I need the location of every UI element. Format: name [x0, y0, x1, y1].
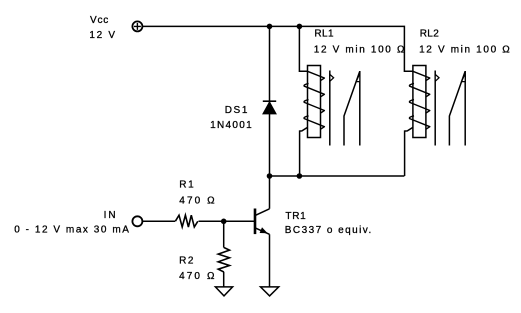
relay RL2 winding turn 3 — [409, 100, 429, 113]
relay RL2 contact fixed right — [464, 71, 466, 146]
svg-text:12 V min 100 Ω: 12 V min 100 Ω — [314, 44, 406, 55]
wire diode branch / collector riser — [269, 26, 271, 208]
ground under R2 — [215, 287, 232, 296]
relay RL1 winding turn 3 — [304, 100, 324, 113]
relay RL1 winding turn 4 — [304, 116, 324, 129]
svg-text:470 Ω: 470 Ω — [179, 195, 216, 206]
relay RL2 contact fixed left — [434, 71, 436, 146]
wire RL1 coil exit — [300, 127, 308, 176]
wire R2 bottom lead — [223, 272, 225, 287]
relay RL1 coil core — [308, 66, 321, 138]
svg-text:12 V: 12 V — [89, 30, 116, 41]
resistor R1 — [175, 215, 198, 227]
relay RL2 winding turn 4 — [409, 116, 429, 129]
relay RL2 coil core — [413, 66, 426, 138]
ground under emitter — [261, 287, 279, 296]
relay RL2 coil and contacts — [409, 66, 465, 146]
node junction top diode — [267, 24, 273, 30]
svg-text:0 - 12 V max 30 mA: 0 - 12 V max 30 mA — [14, 225, 130, 236]
node junction top RL1 — [297, 24, 303, 30]
relay RL1 winding turn 1 — [308, 71, 325, 80]
transistor TR1 — [255, 209, 270, 235]
node junction bus diode — [267, 173, 273, 179]
diode DS1 — [263, 101, 276, 114]
resistor R2 — [218, 248, 229, 273]
wire RL1 coil entry — [299, 26, 307, 71]
relay RL1 contact fixed right — [359, 71, 361, 146]
relay RL1 coil and contacts — [304, 66, 360, 146]
terminal IN — [132, 216, 142, 226]
relay RL2 winding turn 1 — [413, 71, 430, 80]
wire IN to R1 — [143, 220, 175, 222]
relay RL2 winding turn 2 — [409, 83, 429, 96]
node junction base R2 — [221, 219, 227, 225]
svg-text:R2: R2 — [179, 256, 195, 267]
node junction bus RL1 — [297, 173, 303, 179]
svg-text:TR1: TR1 — [285, 211, 306, 222]
wire R1 to base — [199, 220, 255, 222]
wire top rail Vcc to RL2 entry — [143, 26, 413, 71]
svg-text:RL1: RL1 — [314, 29, 334, 40]
relay RL1 contact blade — [344, 71, 360, 145]
terminal Vcc — [132, 21, 142, 31]
svg-text:RL2: RL2 — [420, 29, 440, 40]
relay RL1 winding turn 2 — [304, 83, 324, 96]
svg-text:470 Ω: 470 Ω — [179, 271, 216, 282]
wire R2 top lead — [223, 221, 225, 247]
wire RL2 coil exit — [405, 127, 414, 176]
svg-text:BC337 o equiv.: BC337 o equiv. — [285, 225, 373, 236]
wire bottom coil bus — [270, 175, 405, 177]
relay RL1 contact fixed left — [329, 71, 331, 146]
relay RL2 contact blade — [449, 71, 465, 145]
svg-text:Vcc: Vcc — [90, 15, 109, 26]
svg-text:DS1: DS1 — [225, 105, 249, 116]
svg-text:IN: IN — [104, 210, 118, 221]
svg-text:12 V min 100 Ω: 12 V min 100 Ω — [419, 44, 511, 55]
svg-text:1N4001: 1N4001 — [210, 120, 253, 131]
wire emitter lead — [269, 234, 271, 287]
svg-text:R1: R1 — [179, 180, 195, 191]
